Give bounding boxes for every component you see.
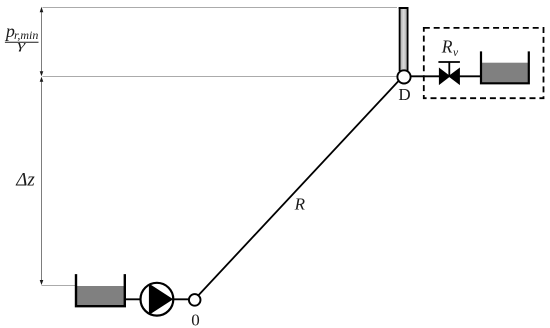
svg-text:0: 0 [191, 310, 200, 328]
label fraction p_r,min / gamma [4, 21, 39, 52]
node D circle [397, 70, 410, 83]
svg-text:γ: γ [18, 37, 26, 52]
wire: lower tank to pump [125, 298, 142, 300]
node O circle [189, 294, 201, 306]
dimension line delta-z (double arrow) [40, 77, 44, 285]
pump (circle with triangle) [141, 283, 174, 316]
wire: D to valve [411, 75, 440, 77]
dimension line p_r,min/gamma (double arrow) [40, 7, 44, 76]
svg-text:R: R [294, 194, 306, 213]
reference line at node D level [43, 76, 397, 78]
upper tank walls [481, 51, 529, 83]
label Rv [441, 36, 459, 59]
svg-text:Δz: Δz [15, 170, 35, 191]
svg-text:R: R [441, 36, 453, 56]
svg-text:v: v [453, 47, 459, 59]
pipe R (diagonal from O to D) [199, 80, 400, 295]
svg-text:D: D [398, 85, 410, 104]
water level line of lower reservoir [42, 285, 76, 287]
wire: valve to upper tank [459, 75, 482, 77]
valve Rv (bowtie with stem) [438, 62, 460, 85]
wire: pump to node O [173, 298, 189, 300]
reference line top (max head level) [43, 7, 398, 9]
upper tank (receiving reservoir): water fill [481, 63, 529, 84]
lower reservoir walls [76, 274, 125, 306]
lower reservoir water fill [76, 286, 125, 306]
riser standpipe above D [399, 7, 409, 71]
dashed enclosure box [424, 28, 544, 98]
